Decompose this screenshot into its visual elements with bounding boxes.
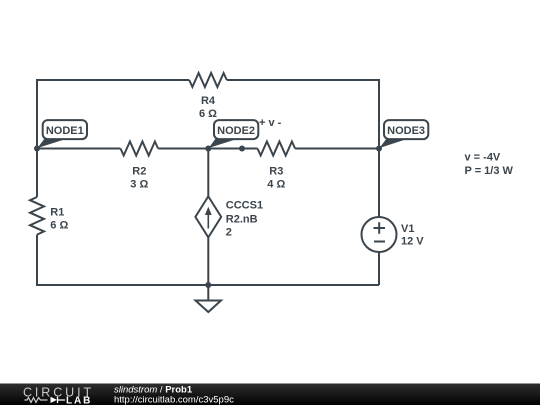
resistor R3 — [258, 142, 296, 156]
svg-text:v = -4V: v = -4V — [465, 152, 501, 164]
svg-text:NODE1: NODE1 — [46, 125, 84, 137]
svg-text:LAB: LAB — [66, 395, 92, 405]
node C junction dot — [239, 146, 245, 152]
node NODE2 callout — [209, 120, 259, 148]
node D junction dot — [376, 146, 382, 152]
node NODE3 callout — [380, 120, 429, 148]
node NODE1 callout — [38, 120, 88, 148]
svg-text:NODE3: NODE3 — [387, 125, 425, 137]
svg-text:R3: R3 — [269, 166, 283, 178]
V1 plus sign — [374, 222, 386, 233]
svg-text:3 Ω: 3 Ω — [130, 179, 148, 191]
CCCS1 arrowhead — [205, 207, 212, 215]
wire node row right — [295, 148, 379, 150]
CCCS1 arrow — [207, 212, 209, 229]
svg-text:2: 2 — [226, 227, 232, 239]
ground — [196, 301, 222, 313]
resistor R1 — [30, 197, 44, 235]
svg-text:4 Ω: 4 Ω — [267, 179, 285, 191]
wire node row left — [37, 148, 121, 150]
node A junction dot — [34, 146, 40, 152]
node E junction dot — [205, 282, 211, 288]
svg-text:V1: V1 — [401, 223, 414, 235]
wire node row middle — [158, 148, 257, 150]
node B junction dot — [205, 146, 211, 152]
wire CCCS1 to bottom — [207, 237, 209, 285]
svg-text:6 Ω: 6 Ω — [199, 108, 217, 120]
resistor R2 — [121, 142, 159, 156]
svg-text:R1: R1 — [50, 207, 64, 219]
svg-text:http://circuitlab.com/c3v5p9c: http://circuitlab.com/c3v5p9c — [114, 394, 234, 405]
footer bar — [0, 384, 540, 405]
svg-text:R4: R4 — [201, 95, 216, 107]
resistor R4 — [189, 73, 227, 87]
logo resistor squiggle — [24, 398, 47, 403]
V1 minus sign — [374, 241, 385, 243]
svg-text:CCCS1: CCCS1 — [226, 200, 263, 212]
svg-text:P = 1/3 W: P = 1/3 W — [465, 165, 514, 177]
wire top-left corner — [37, 80, 189, 149]
svg-text:NODE2: NODE2 — [217, 125, 255, 137]
svg-text:+ v -: + v - — [259, 117, 282, 129]
logo diode — [51, 397, 58, 403]
wire R1 to bottom-left corner — [37, 235, 379, 285]
wire NODE1 to R1 — [36, 149, 38, 198]
voltage source V1 — [362, 217, 397, 252]
wire NODE2 to CCCS1 — [207, 149, 209, 197]
svg-text:6 Ω: 6 Ω — [50, 220, 68, 232]
ground stub — [207, 285, 209, 300]
wire top-right corner — [227, 80, 379, 217]
svg-text:R2.nB: R2.nB — [226, 214, 258, 226]
svg-text:12 V: 12 V — [401, 236, 424, 248]
wire V1 to bottom — [378, 252, 380, 285]
svg-text:R2: R2 — [132, 166, 146, 178]
current source CCCS1 — [195, 196, 221, 237]
